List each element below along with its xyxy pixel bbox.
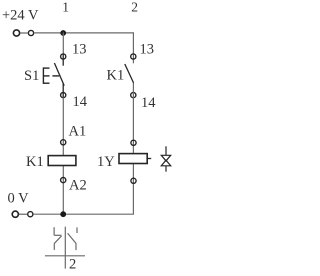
wire rung1 bottom (62, 166, 64, 215)
wire rung2 bottom (132, 164, 134, 215)
contact mirror NC contact (unused) (54, 227, 61, 250)
relay contact K1 (NO contact) (125, 54, 136, 98)
wire rung1 middle (62, 97, 64, 155)
svg-text:2: 2 (69, 256, 76, 272)
svg-text:K1: K1 (26, 154, 44, 170)
contact mirror NO contact (used in rung 2) (68, 227, 77, 250)
wire terminal link (+24V) (20, 32, 28, 34)
wire rung2 middle (132, 83, 134, 154)
pin stub (1Y right) (147, 158, 151, 160)
svg-text:14: 14 (73, 94, 88, 110)
svg-text:A2: A2 (69, 178, 87, 194)
junction dot (bottom, column 1) (60, 211, 66, 217)
relay coil K1 (48, 140, 76, 183)
wire terminal link (0V) (19, 213, 28, 215)
svg-text:K1: K1 (107, 68, 125, 84)
svg-text:0 V: 0 V (8, 191, 30, 207)
svg-text:2: 2 (131, 0, 138, 14)
svg-text:+24 V: +24 V (2, 7, 39, 23)
svg-text:13: 13 (72, 42, 87, 58)
wire rung1 top (62, 32, 64, 54)
svg-text:S1: S1 (24, 68, 39, 84)
contact mirror divider (K1 contact table) (45, 227, 85, 269)
svg-text:A1: A1 (69, 124, 87, 140)
terminal circle (left, 0V rail) (12, 211, 18, 217)
svg-text:14: 14 (141, 95, 156, 111)
terminal circle (inner, +24V rail) (28, 30, 33, 35)
svg-text:13: 13 (140, 42, 155, 58)
terminal circle (left, +24V rail) (13, 30, 19, 36)
junction dot (top, column 1) (60, 30, 66, 36)
terminal circle (inner, 0V rail) (28, 212, 33, 217)
wire +24V rail (34, 32, 134, 34)
svg-text:1Y: 1Y (97, 154, 115, 170)
pushbutton actuator (E symbol of S1) (43, 67, 59, 84)
wire rung2 top (132, 32, 134, 63)
wire 0V rail (33, 213, 134, 215)
pushbutton S1 (NO contact) (54, 54, 65, 98)
valve indicator (hourglass, 1Y) (161, 146, 170, 171)
solenoid coil 1Y (119, 140, 147, 183)
svg-text:1: 1 (62, 0, 69, 14)
